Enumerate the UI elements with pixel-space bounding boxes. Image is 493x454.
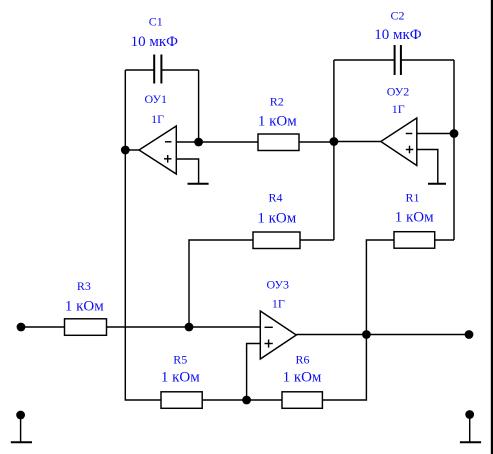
wire OU2 noninverting input (417, 150, 438, 184)
wire R6 left lead (247, 399, 282, 401)
svg-text:R2: R2 (270, 95, 284, 109)
wire OU2 output to node (334, 141, 381, 143)
ground at OU1 (188, 183, 209, 185)
wire OU1 output vertical down to R5 line (125, 150, 161, 400)
resistor R3 body (65, 319, 107, 336)
wire C2 right vertical down to R1 level (453, 60, 455, 240)
svg-text:ОУ2: ОУ2 (387, 84, 410, 98)
wire R6 right lead up to OU3 output node (322, 335, 366, 401)
svg-text:1 кОм: 1 кОм (395, 210, 434, 226)
ground terminal bottom right (460, 410, 481, 442)
svg-text:R1: R1 (405, 190, 419, 204)
wire R3 to OU3 inverting input (107, 326, 261, 328)
OU2 minus symbol (406, 133, 413, 135)
node D: R5/R6 junction (242, 396, 251, 405)
wire C1 right vertical to OU1 inverting input (198, 70, 200, 142)
svg-text:R3: R3 (77, 279, 91, 293)
svg-text:1 кОм: 1 кОм (258, 114, 297, 130)
OU3 minus symbol (265, 326, 273, 328)
wire OU1 noninverting input (176, 159, 198, 184)
node B1: OU1 inverting input junction (194, 138, 203, 147)
svg-text:1Г: 1Г (151, 112, 164, 126)
node A2: OU2 output junction (330, 137, 339, 146)
svg-text:1 кОм: 1 кОм (65, 298, 104, 314)
wire OU1 inverting input line to R2 (176, 141, 258, 143)
ground terminal bottom left (11, 411, 32, 443)
output terminal (465, 330, 474, 339)
svg-text:1Г: 1Г (392, 102, 405, 116)
wire input to R3 (21, 326, 65, 328)
wire C1 left lead (125, 69, 154, 71)
svg-text:ОУ1: ОУ1 (145, 92, 168, 106)
op-amp U3 (OU3) triangle pointing right (260, 311, 296, 359)
border frame right edge (491, 0, 493, 454)
svg-text:10 мкФ: 10 мкФ (374, 27, 422, 43)
OU3 plus symbol (265, 340, 273, 348)
svg-text:1 кОм: 1 кОм (283, 369, 322, 385)
resistor R5 body (161, 392, 202, 409)
wire OU2 inverting input (417, 133, 454, 135)
svg-text:C1: C1 (149, 14, 163, 28)
svg-text:R5: R5 (173, 352, 187, 366)
wire C1 left vertical to OU1 output node (124, 70, 126, 150)
node E: OU3 output junction (362, 330, 371, 339)
wire R2 right lead (299, 141, 334, 143)
svg-text:1 кОм: 1 кОм (161, 369, 200, 385)
svg-text:1 кОм: 1 кОм (257, 211, 296, 227)
svg-text:10 мкФ: 10 мкФ (131, 34, 179, 50)
wire C2 right lead (401, 59, 454, 61)
resistor R2 body (258, 134, 299, 151)
capacitor C1 (154, 55, 161, 84)
wire C1 right lead (161, 69, 198, 71)
op-amp U1 (OU1) triangle pointing left (139, 126, 176, 174)
OU2 plus symbol (406, 146, 414, 154)
resistor R4 body (253, 232, 300, 249)
node C: R3/R4 junction on OU3 input line (185, 323, 194, 332)
node A1: OU1 output junction (121, 146, 130, 155)
OU1 minus symbol (165, 141, 172, 143)
svg-text:R4: R4 (268, 190, 282, 204)
resistor R6 body (282, 392, 322, 409)
wire OU1 output to node (125, 149, 139, 151)
wire R1 left lead down to OU3 output node (366, 240, 394, 335)
capacitor C2 (395, 45, 401, 75)
resistor R1 body (394, 232, 435, 249)
wire R5 right lead (202, 399, 246, 401)
wire C2 left vertical down to R4 level (333, 60, 335, 240)
wire C2 left lead (334, 59, 395, 61)
wire R4 left lead and branch down to node on input line (300, 239, 334, 241)
op-amp U2 (OU2) triangle pointing left (381, 118, 417, 166)
wire R1 right lead (435, 239, 454, 241)
svg-text:R6: R6 (295, 352, 309, 366)
wire OU3 noninverting input down to R5/R6 junction (247, 344, 261, 401)
ground at OU2 (428, 183, 446, 185)
wire R4 left (189, 240, 253, 327)
OU1 plus symbol (164, 155, 172, 163)
svg-text:C2: C2 (390, 8, 404, 22)
wire OU3 output line to output terminal (296, 334, 469, 336)
input terminal (17, 323, 26, 332)
svg-text:1Г: 1Г (272, 297, 285, 311)
svg-text:ОУ3: ОУ3 (267, 277, 290, 291)
node B2: OU2 inverting input junction (450, 129, 459, 138)
